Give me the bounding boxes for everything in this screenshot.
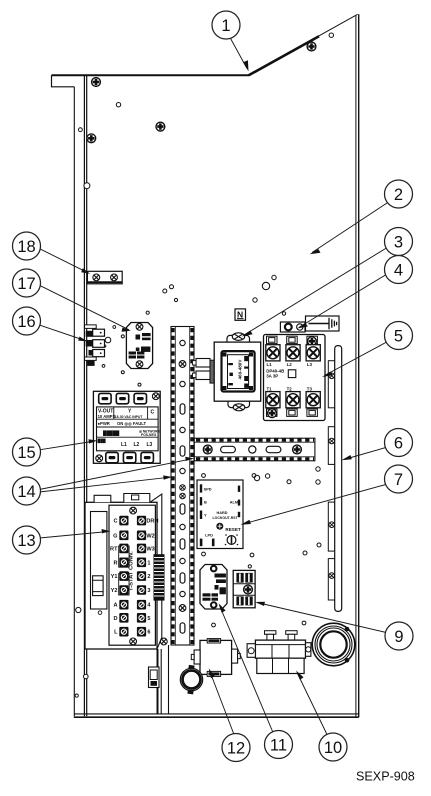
inner board (109, 505, 155, 645)
svg-text:DRN: DRN (146, 519, 158, 525)
leader 10 (297, 673, 328, 736)
right edge double line (355, 16, 357, 718)
left folded edge double line (83, 75, 85, 716)
contactor item 5 (264, 335, 326, 421)
hole left strip (79, 128, 83, 132)
callout 11 (265, 731, 293, 759)
grommet (180, 665, 202, 695)
arrow 16 (78, 337, 87, 342)
bottom tabs (267, 409, 318, 416)
svg-text:10 AMPS: 10 AMPS (98, 414, 116, 419)
wire duct item 6 (328, 346, 341, 612)
svg-text:L2: L2 (134, 442, 140, 448)
leader 7 (243, 485, 386, 525)
terminal block item 9 (233, 570, 255, 607)
holes near item 16/17 (121, 335, 124, 338)
callout 6 (385, 429, 413, 457)
svg-text:LPD: LPD (205, 532, 213, 537)
callout 10 (319, 733, 347, 761)
callout 18 (13, 232, 41, 260)
relay board item 15 (93, 391, 160, 463)
svg-text:15: 15 (17, 444, 35, 462)
mounting screw top-left (92, 78, 101, 87)
bracket screw (160, 638, 167, 645)
svg-text:L: L (114, 630, 118, 636)
svg-text:1: 1 (147, 560, 150, 566)
leader 16 (39, 325, 85, 341)
round knockout (312, 623, 355, 666)
callout 5 (385, 322, 413, 350)
arrow 9 (255, 602, 265, 606)
arrow 13 (102, 529, 111, 533)
leader 17 (40, 285, 130, 330)
arrow 3 (242, 331, 253, 337)
svg-text:14: 14 (17, 483, 35, 501)
terminal rows (110, 519, 118, 636)
svg-text:18-30 VAC INPUT: 18-30 VAC INPUT (115, 415, 144, 419)
leader 5 (325, 342, 387, 376)
svg-text:460-480V: 460-480V (238, 359, 243, 380)
svg-text:16: 16 (17, 313, 35, 331)
svg-text:11: 11 (270, 736, 287, 754)
arrow 4 (297, 323, 308, 329)
svg-text:D: D (113, 616, 117, 622)
transformer item 12 (191, 639, 240, 677)
svg-text:POS-NEG: POS-NEG (141, 433, 157, 437)
svg-text:1: 1 (221, 17, 230, 35)
svg-text:LOCKOUT-RST: LOCKOUT-RST (213, 516, 239, 520)
arrow 14b (163, 475, 172, 479)
svg-text:R: R (113, 560, 117, 566)
arrow 14a (185, 457, 194, 461)
callout 2 (385, 180, 413, 208)
svg-text:SEXP-908: SEXP-908 (356, 770, 415, 784)
arrow 18 (81, 268, 90, 274)
svg-text:7: 7 (394, 471, 403, 489)
hole (329, 33, 333, 37)
top tabs (267, 336, 318, 343)
hole (116, 103, 120, 107)
leader 2 (312, 203, 388, 253)
holes mid lower (254, 475, 259, 480)
mounting screw top diagonal (307, 42, 316, 51)
svg-text:3: 3 (147, 588, 150, 594)
svg-text:5: 5 (147, 616, 150, 622)
svg-text:Y2: Y2 (111, 588, 118, 594)
terminal block item 10 (247, 631, 311, 674)
bottom mount tab (228, 401, 250, 408)
svg-text:RT: RT (110, 546, 118, 552)
svg-text:T2: T2 (287, 386, 293, 391)
arrow 11 (219, 603, 226, 613)
svg-text:3A 3P: 3A 3P (266, 373, 278, 378)
diagonal top fold (thick part) (249, 36, 319, 75)
slider column (91, 512, 107, 610)
svg-text:ON ◎◎ FAULT: ON ◎◎ FAULT (117, 421, 147, 426)
callout 17 (13, 269, 41, 297)
svg-text:W3: W3 (146, 546, 154, 552)
arrow 5 (322, 372, 333, 378)
arrow 15 (89, 439, 98, 443)
arrow 10 (296, 671, 304, 680)
svg-text:T3: T3 (307, 386, 313, 391)
svg-text:Y: Y (204, 513, 207, 518)
svg-text:HARD: HARD (217, 511, 228, 515)
svg-text:W2: W2 (146, 533, 154, 539)
arrow 17 (122, 328, 132, 332)
leader 9 (257, 603, 386, 633)
callout 14 (13, 477, 41, 505)
callout 3 (385, 228, 413, 256)
svg-text:█████: █████ (103, 430, 120, 437)
lower connector on flange (149, 667, 160, 688)
leader 11 (220, 606, 274, 733)
body (214, 342, 261, 401)
bracket 3d flange right (150, 494, 162, 649)
top tabs (94, 495, 111, 502)
panel back plate outline (52, 14, 359, 717)
svg-text:G: G (113, 533, 117, 539)
callout 7 (385, 465, 413, 493)
svg-text:B: B (204, 499, 207, 504)
top edge (52, 74, 250, 76)
top terminal squares (266, 345, 321, 361)
svg-text:T1: T1 (267, 386, 273, 391)
vertical DIN rail item 14b (171, 327, 194, 646)
circuit board item 7 (197, 480, 243, 549)
leader 4 (300, 275, 387, 328)
svg-text:12: 12 (227, 739, 245, 757)
svg-text:Y1: Y1 (111, 574, 118, 580)
horizontal DIN rail item 14 (194, 438, 315, 461)
svg-text:17: 17 (17, 275, 35, 293)
callout 4 (385, 256, 413, 284)
svg-text:L3: L3 (307, 362, 313, 367)
bottom edge double line (74, 713, 358, 715)
svg-text:6: 6 (394, 434, 403, 452)
svg-text:ALM: ALM (230, 501, 238, 505)
svg-text:6: 6 (147, 630, 150, 636)
ground lug item 4 (280, 316, 339, 332)
svg-text:3: 3 (394, 233, 403, 251)
svg-text:9: 9 (394, 628, 403, 646)
svg-text:C: C (113, 519, 117, 525)
diagonal top fold (thin full) (249, 14, 358, 75)
relay item 17 (126, 323, 152, 369)
callout 16 (13, 307, 41, 335)
spade terminals item 16 (85, 325, 105, 366)
callout 15 (13, 438, 41, 466)
left outer edge (73, 87, 75, 716)
leader 3 (244, 248, 387, 336)
top flange tab (52, 75, 88, 87)
svg-text:L1: L1 (121, 442, 127, 448)
leader 13 (40, 532, 109, 539)
mounting screw left edge (87, 134, 96, 143)
svg-text:5: 5 (394, 327, 403, 345)
leader 18 (39, 248, 88, 272)
svg-text:2: 2 (394, 186, 403, 204)
arrow 2 (310, 249, 321, 254)
bracket item 18 (87, 271, 122, 284)
svg-text:18: 18 (17, 238, 35, 256)
top mount tab (227, 335, 250, 342)
arrow 12 (209, 668, 215, 678)
leader 14b (39, 477, 170, 492)
svg-text:10: 10 (324, 739, 342, 757)
svg-text:L2: L2 (287, 362, 293, 367)
svg-text:4: 4 (394, 261, 403, 279)
svg-text:SPD: SPD (204, 487, 212, 492)
leader 6 (344, 448, 386, 460)
svg-text:T-STAT CONN.: T-STAT CONN. (129, 551, 135, 591)
leader 12 (210, 671, 235, 735)
t-stat board assembly item 13 (85, 494, 169, 715)
arrow 6 (342, 455, 352, 460)
leader 1 (230, 38, 247, 69)
svg-text:●PWR: ●PWR (98, 421, 110, 426)
svg-text:L3: L3 (147, 442, 153, 448)
hole left strip (84, 183, 90, 189)
callout 12 (222, 734, 250, 762)
relay item 11 (200, 565, 227, 610)
svg-text:2: 2 (147, 574, 150, 580)
leader 14a (39, 459, 192, 490)
svg-text:A: A (113, 603, 117, 609)
leader 15 (40, 441, 96, 450)
callout 13 (13, 526, 41, 554)
mounting screw upper-mid (156, 122, 165, 131)
bracket plate (85, 502, 157, 649)
svg-text:13: 13 (17, 532, 35, 550)
hole cluster mid panel (262, 282, 269, 289)
control transformer item 3 (193, 333, 261, 411)
arrow 1 (243, 60, 248, 71)
left tabs (196, 359, 210, 368)
heatsink ribs (154, 554, 165, 600)
svg-text:N: N (237, 310, 243, 320)
svg-text:RESET: RESET (225, 527, 241, 532)
N neutral label (235, 309, 246, 320)
bottom terminal squares (266, 392, 321, 408)
svg-text:L1: L1 (267, 362, 273, 367)
callout 1 (212, 11, 240, 39)
svg-text:C: C (151, 410, 155, 416)
callout 9 (385, 622, 413, 650)
arrow 7 (241, 520, 251, 525)
